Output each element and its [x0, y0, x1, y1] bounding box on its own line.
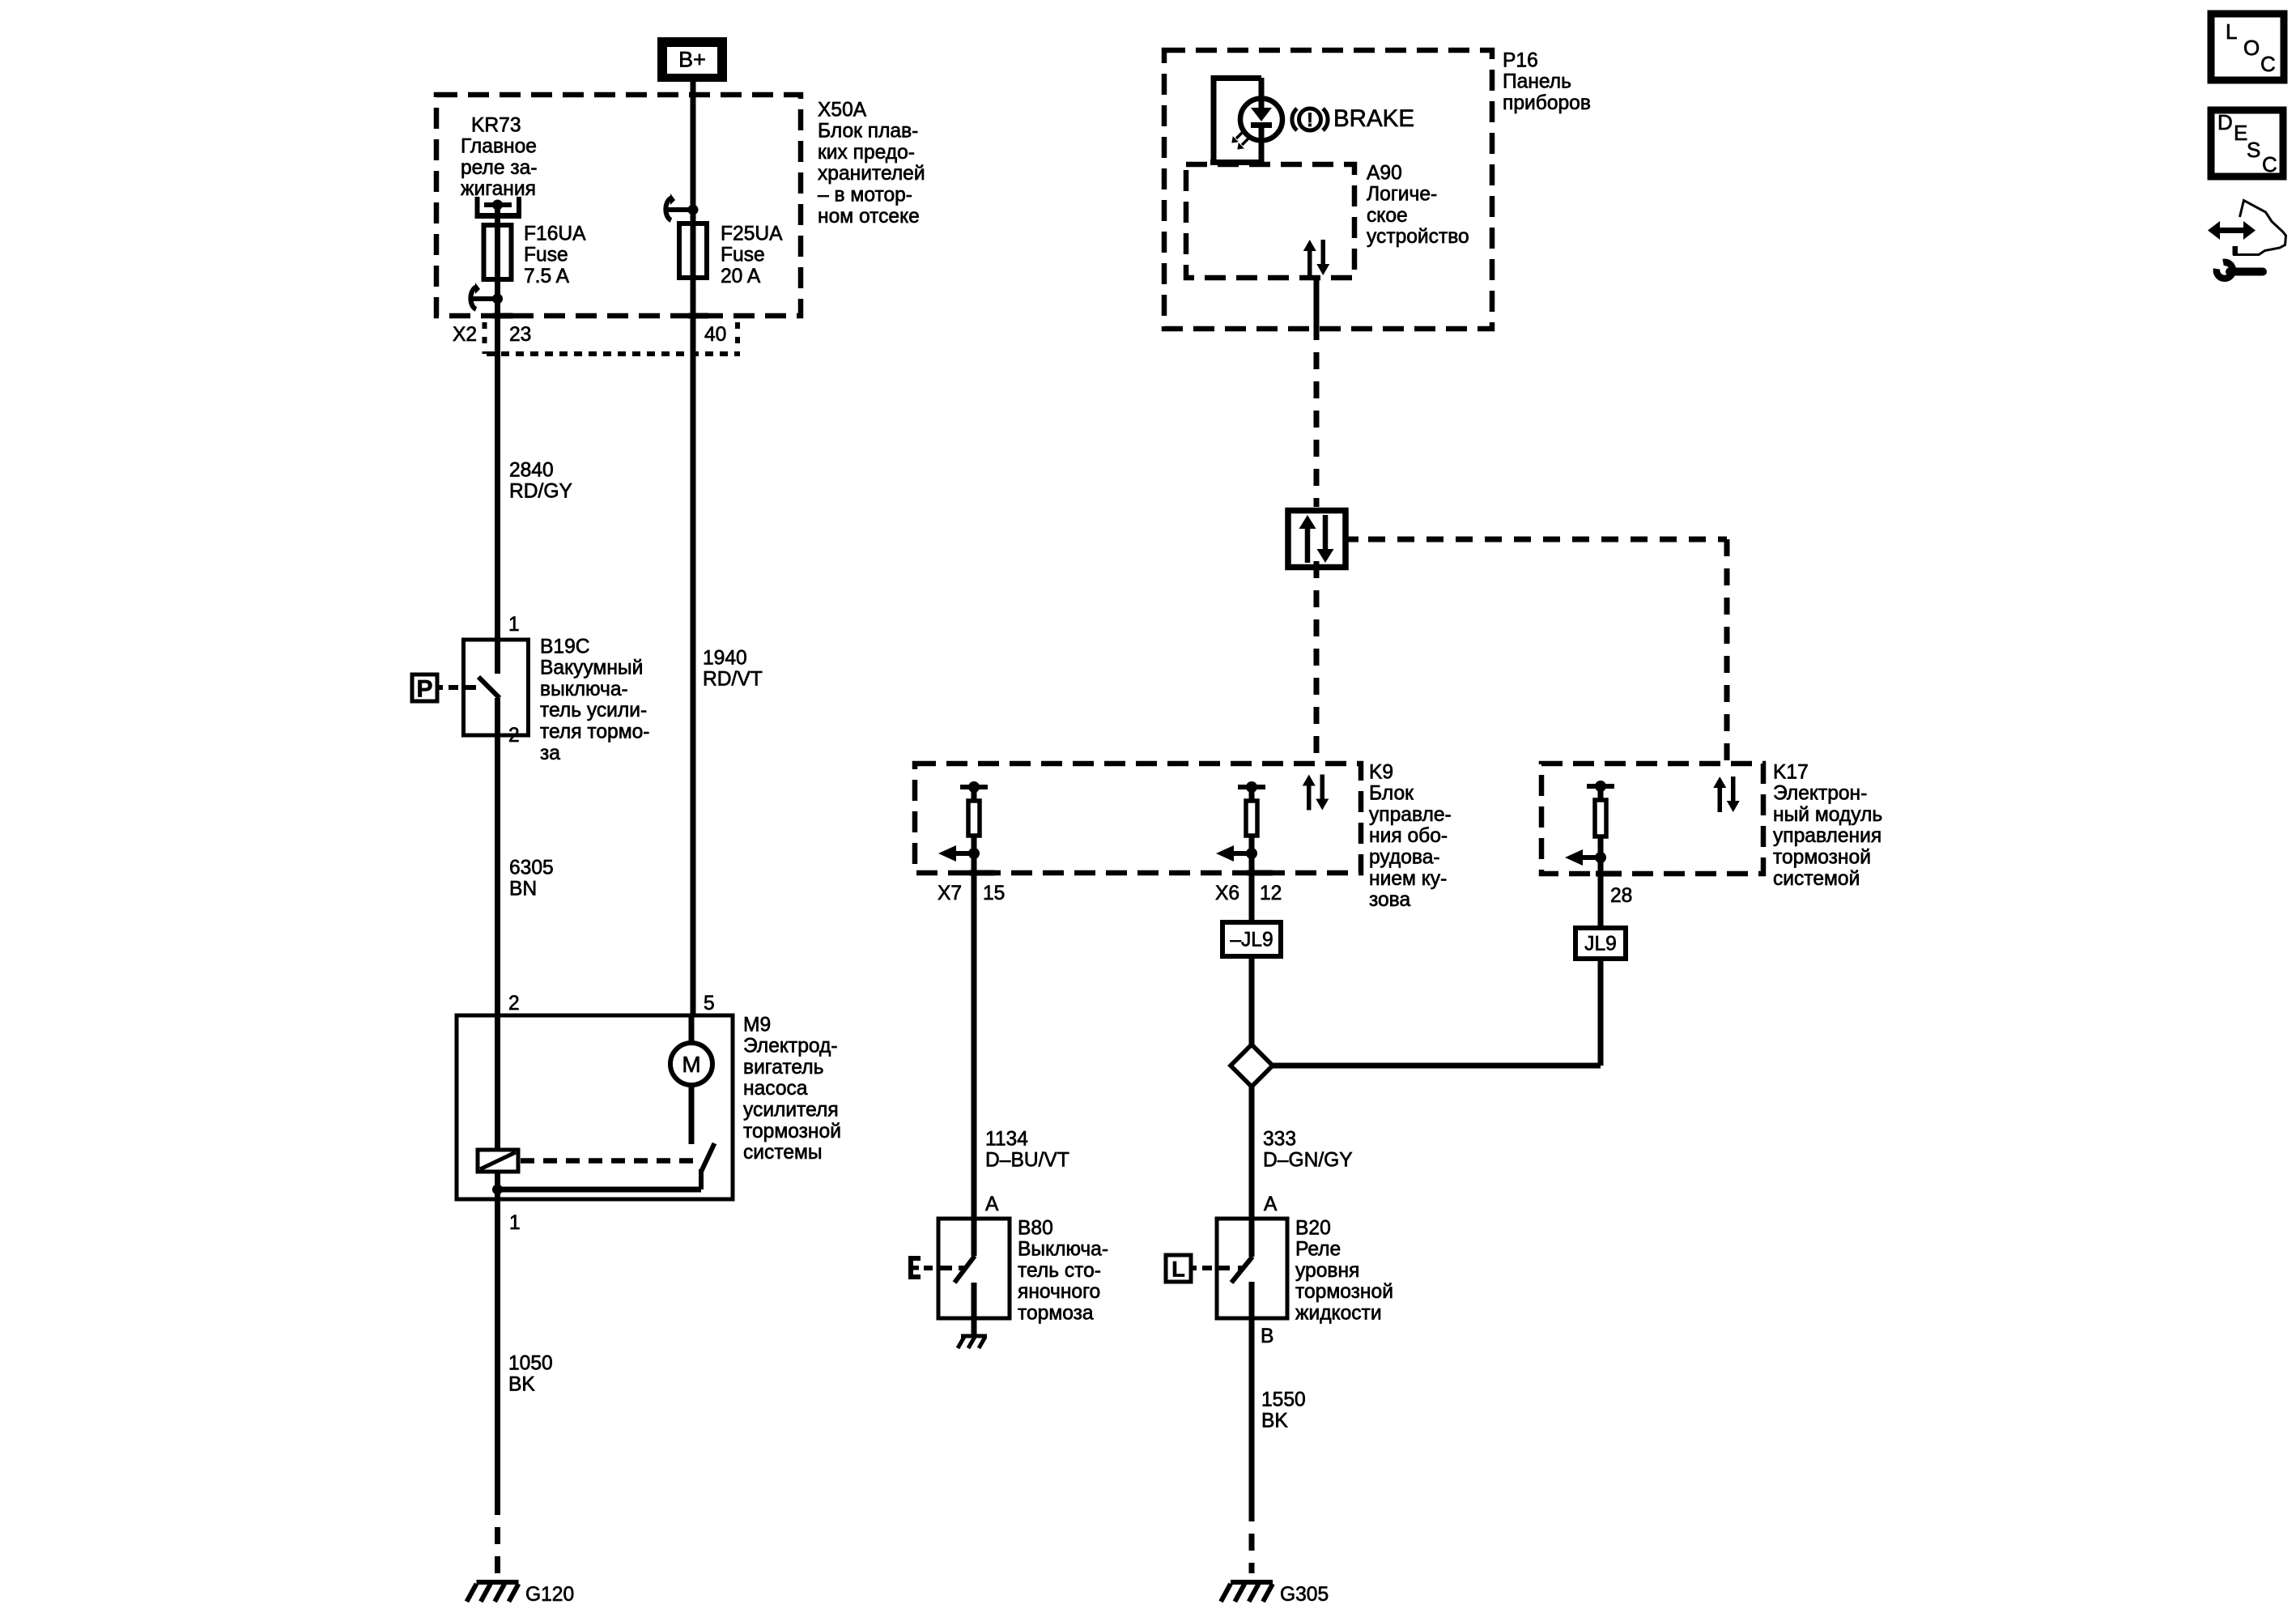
svg-text:C: C: [2260, 52, 2276, 76]
svg-text:28: 28: [1610, 885, 1632, 907]
svg-text:KR73: KR73: [471, 114, 521, 136]
svg-text:A: A: [1264, 1194, 1278, 1215]
svg-text:Реле: Реле: [1295, 1239, 1341, 1261]
svg-text:ких предо-: ких предо-: [818, 142, 915, 164]
svg-text:системы: системы: [743, 1142, 823, 1164]
svg-text:G120: G120: [525, 1584, 574, 1606]
svg-text:Вакуумный: Вакуумный: [540, 657, 643, 679]
svg-text:RD/GY: RD/GY: [509, 481, 572, 503]
svg-text:жигания: жигания: [461, 178, 536, 200]
svg-text:устройство: устройство: [1367, 226, 1469, 248]
svg-text:1: 1: [509, 1212, 521, 1234]
svg-text:X6: X6: [1215, 883, 1239, 904]
svg-text:A: A: [985, 1194, 999, 1215]
svg-text:хранителей: хранителей: [818, 163, 925, 185]
svg-text:BN: BN: [509, 879, 537, 900]
svg-text:насоса: насоса: [743, 1078, 808, 1100]
svg-text:тормозной: тормозной: [1295, 1281, 1393, 1303]
svg-text:управления: управления: [1773, 825, 1881, 847]
svg-text:2: 2: [508, 993, 520, 1015]
svg-text:D–GN/GY: D–GN/GY: [1263, 1150, 1353, 1172]
svg-text:1: 1: [508, 614, 520, 636]
svg-text:тормозной: тормозной: [743, 1121, 841, 1143]
svg-text:B19C: B19C: [540, 636, 590, 657]
svg-text:– в мотор-: – в мотор-: [818, 185, 912, 206]
svg-text:Главное: Главное: [461, 136, 537, 158]
svg-text:6305: 6305: [509, 857, 554, 879]
svg-text:Электрод-: Электрод-: [743, 1036, 838, 1057]
svg-text:1940: 1940: [703, 647, 747, 669]
svg-text:!: !: [1307, 109, 1313, 131]
svg-text:нием ку-: нием ку-: [1369, 868, 1447, 890]
svg-text:X2: X2: [453, 324, 477, 346]
svg-text:2840: 2840: [509, 459, 554, 481]
svg-text:BK: BK: [1261, 1411, 1288, 1432]
svg-text:зова: зова: [1369, 889, 1410, 911]
svg-text:G305: G305: [1280, 1584, 1329, 1606]
svg-text:управле-: управле-: [1369, 804, 1452, 826]
svg-text:F16UA: F16UA: [524, 223, 586, 245]
svg-text:ния обо-: ния обо-: [1369, 825, 1448, 847]
svg-text:P16: P16: [1503, 49, 1538, 71]
svg-text:выключа-: выключа-: [540, 679, 628, 700]
svg-text:за: за: [540, 743, 560, 764]
svg-text:ское: ское: [1367, 205, 1408, 227]
svg-text:333: 333: [1263, 1128, 1296, 1150]
svg-text:Электрон-: Электрон-: [1773, 783, 1867, 805]
svg-text:Выключа-: Выключа-: [1018, 1239, 1108, 1261]
svg-text:7.5 A: 7.5 A: [524, 266, 570, 287]
svg-text:тормоза: тормоза: [1018, 1303, 1094, 1325]
svg-text:уровня: уровня: [1295, 1260, 1359, 1282]
svg-text:X7: X7: [938, 883, 962, 904]
svg-text:20 A: 20 A: [721, 266, 761, 287]
svg-text:1050: 1050: [508, 1352, 553, 1374]
svg-text:ном отсеке: ном отсеке: [818, 206, 920, 228]
svg-text:Fuse: Fuse: [721, 245, 765, 266]
svg-text:D: D: [2217, 110, 2233, 134]
svg-text:F25UA: F25UA: [721, 223, 783, 245]
svg-text:1134: 1134: [985, 1128, 1028, 1150]
svg-text:тель усили-: тель усили-: [540, 700, 647, 721]
svg-text:М9: М9: [743, 1014, 771, 1036]
svg-text:M: M: [682, 1052, 700, 1077]
svg-text:жидкости: жидкости: [1295, 1303, 1382, 1325]
svg-text:Fuse: Fuse: [524, 245, 568, 266]
svg-text:S: S: [2247, 138, 2260, 162]
svg-text:K17: K17: [1773, 761, 1809, 783]
svg-text:Логиче-: Логиче-: [1367, 184, 1437, 206]
svg-text:L: L: [1171, 1257, 1185, 1282]
svg-text:K9: K9: [1369, 761, 1393, 783]
svg-text:B80: B80: [1018, 1217, 1053, 1239]
svg-text:15: 15: [983, 883, 1005, 904]
svg-text:B20: B20: [1295, 1217, 1331, 1239]
svg-text:12: 12: [1260, 883, 1282, 904]
svg-text:теля тормо-: теля тормо-: [540, 721, 649, 743]
svg-text:B: B: [1261, 1326, 1273, 1347]
svg-text:Панель: Панель: [1503, 71, 1571, 93]
svg-text:C: C: [2262, 152, 2277, 177]
svg-text:вигатель: вигатель: [743, 1057, 823, 1079]
svg-text:реле за-: реле за-: [461, 157, 538, 179]
svg-text:Блок: Блок: [1369, 783, 1414, 805]
svg-text:1550: 1550: [1261, 1389, 1306, 1411]
svg-text:RD/VT: RD/VT: [703, 669, 763, 691]
svg-text:системой: системой: [1773, 868, 1860, 890]
svg-text:23: 23: [509, 324, 531, 346]
svg-text:2: 2: [508, 725, 520, 747]
svg-text:приборов: приборов: [1503, 92, 1591, 114]
svg-text:JL9: JL9: [1584, 934, 1617, 955]
svg-text:L: L: [2226, 19, 2237, 44]
svg-text:P: P: [416, 676, 432, 703]
svg-text:тормозной: тормозной: [1773, 847, 1871, 869]
svg-text:5: 5: [704, 993, 715, 1015]
svg-text:тель сто-: тель сто-: [1018, 1260, 1101, 1282]
svg-text:40: 40: [704, 324, 726, 346]
svg-text:ный модуль: ный модуль: [1773, 804, 1882, 826]
svg-text:O: O: [2243, 36, 2260, 60]
svg-text:D–BU/VT: D–BU/VT: [985, 1150, 1069, 1172]
svg-text:–JL9: –JL9: [1230, 930, 1273, 951]
svg-text:яночного: яночного: [1018, 1281, 1100, 1303]
svg-text:E: E: [2234, 121, 2247, 145]
svg-text:усилителя: усилителя: [743, 1100, 839, 1121]
svg-text:рудова-: рудова-: [1369, 847, 1440, 869]
svg-text:X50A: X50A: [818, 99, 867, 121]
svg-text:BRAKE: BRAKE: [1333, 105, 1414, 132]
svg-text:Блок плав-: Блок плав-: [818, 121, 918, 143]
svg-text:BK: BK: [508, 1374, 535, 1396]
svg-text:A90: A90: [1367, 162, 1402, 184]
svg-text:B+: B+: [678, 48, 706, 72]
